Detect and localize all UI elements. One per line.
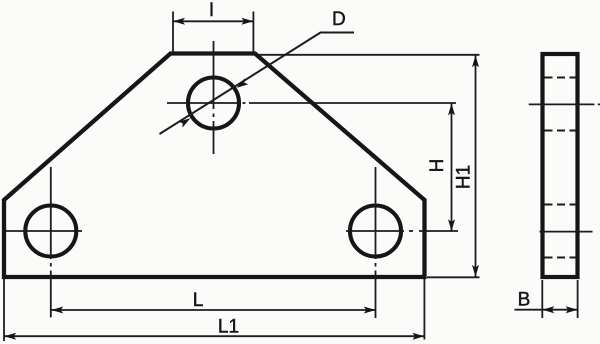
dimension I: line: [173, 20, 253, 22]
side view centerline, top hole: [529, 103, 595, 105]
dimension H1: arrow bottom (down): [472, 265, 479, 277]
dimension H1: arrow top (up): [472, 55, 479, 67]
dimension H: arrow top (up): [448, 103, 455, 115]
dimension I: arrow left: [173, 18, 185, 25]
dimension H: line: [451, 103, 453, 231]
svg-text:H1: H1: [454, 165, 475, 189]
centerline horizontal, top hole (extends to H dimension): [167, 102, 456, 104]
dimension B: extension line left: [541, 280, 543, 318]
centerline horizontal, bottom-left hole: [6, 230, 82, 232]
dimension B: arrow right: [566, 306, 578, 313]
hole bottom-right: [350, 206, 401, 257]
dimension L1: extension line right (from plate corner): [423, 279, 425, 340]
dimension L1: line: [4, 335, 424, 337]
dimension H: arrow bottom (down): [448, 219, 455, 231]
centerline vertical, top hole: [213, 41, 215, 154]
svg-text:I: I: [209, 0, 214, 21]
side view hidden line, top hole lower: [545, 130, 576, 132]
side view hidden line, top hole upper: [545, 77, 576, 79]
dimension B: arrow left: [542, 306, 554, 313]
svg-text:B: B: [518, 289, 531, 310]
dimension I: extension lines: [173, 12, 253, 55]
dimension L: line: [51, 309, 375, 311]
dimension B: extension line right: [577, 280, 579, 318]
dimension I: arrow right: [241, 18, 253, 25]
centerline vertical, bottom-left hole (extends to L dimension): [50, 167, 52, 318]
centerline horizontal, bottom-right hole (extends to H dimension): [346, 230, 458, 232]
side view centerline, bottom holes: [540, 231, 593, 233]
svg-text:H: H: [427, 159, 448, 173]
dimension B: line with left tail: [515, 309, 578, 311]
centerline vertical, bottom-right hole (extends to L dimension): [375, 167, 377, 318]
side view rectangle: [543, 54, 578, 277]
dimension L1: arrow left: [4, 333, 16, 340]
hole bottom-left: [25, 206, 76, 257]
dimension H1: extension line top (from plate top edge): [257, 54, 480, 56]
svg-text:D: D: [332, 9, 346, 30]
side view hidden line, bottom holes upper: [545, 204, 576, 206]
leader D: diagonal line through top hole: [160, 33, 355, 135]
svg-text:L: L: [193, 290, 204, 311]
dimension L: arrow left: [51, 307, 63, 314]
dimension L: arrow right: [364, 307, 376, 314]
dimension H1: extension line bottom (from plate bottom edge): [427, 276, 480, 278]
dimension H1: line: [475, 55, 477, 277]
hole top (D): [188, 78, 239, 129]
leader D: arrow upper (points toward circle, down-left): [235, 78, 249, 90]
dimension L1: extension line left (from plate corner): [3, 279, 5, 341]
side view hidden line, bottom holes lower: [545, 257, 576, 259]
leader D: arrow lower (points toward circle, up-right): [179, 115, 193, 127]
svg-text:L1: L1: [218, 316, 239, 337]
plate outline (front view): [4, 54, 425, 278]
dimension L1: arrow right: [412, 333, 424, 340]
